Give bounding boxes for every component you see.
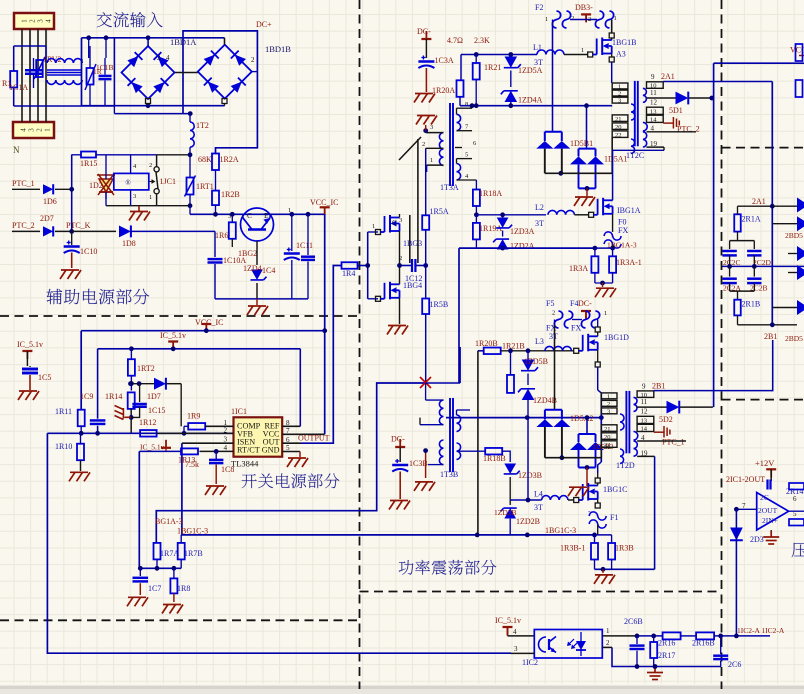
svg-text:C: C [247, 211, 252, 220]
wire bridge1BD1B right corner down to 1R2A [252, 71, 258, 73]
svg-text:2R16B: 2R16B [692, 639, 715, 648]
twin diode 1D5B1 [545, 131, 562, 133]
resistor 1R20A [460, 55, 462, 81]
MOSFET 1BG1D [574, 348, 579, 353]
resistor 1R3A-1 [612, 248, 614, 256]
svg-text:3: 3 [28, 128, 36, 132]
T2D winding arcs left [620, 414, 624, 430]
svg-text:12: 12 [650, 99, 658, 107]
svg-text:1ZD4: 1ZD4 [243, 264, 262, 273]
capacitor 1C8 [214, 449, 219, 454]
svg-text:5D1: 5D1 [669, 106, 683, 115]
svg-text:1R9: 1R9 [187, 412, 200, 421]
svg-text:2OUT: 2OUT [758, 506, 778, 515]
section divider dashed horizontal y=591 (power osc bottom) [360, 591, 722, 593]
svg-text:5: 5 [465, 152, 468, 159]
svg-text:3: 3 [514, 645, 518, 653]
capacitor 2C6B [636, 636, 638, 644]
svg-text:2: 2 [422, 141, 425, 148]
svg-text:1C1A: 1C1A [9, 83, 28, 92]
vertical zener-chain x=528 to gate net [527, 418, 529, 500]
resistor 1R8 [173, 568, 175, 578]
svg-text:2IC1-2OUT: 2IC1-2OUT [726, 475, 765, 484]
bottom bus of aux regulator [215, 298, 308, 300]
MOSFET 1BG3 [376, 230, 381, 235]
varistor 1RV2 [36, 60, 43, 77]
svg-text:2C6: 2C6 [728, 660, 741, 669]
transformer 1T3B core [449, 398, 451, 472]
right edge diode stub wires [772, 223, 797, 225]
svg-text:9: 9 [642, 382, 646, 390]
svg-text:1: 1 [606, 627, 610, 635]
svg-text:1R6: 1R6 [215, 231, 228, 240]
bus A stub to 1BD1B top corner [224, 38, 226, 45]
section divider dashed horizontal right y=399.6 [722, 399, 804, 401]
pin1 COMP stub [205, 425, 233, 427]
wire VCC net y=330.7 [81, 330, 325, 332]
svg-text:14: 14 [650, 116, 657, 123]
ground 1R3B [602, 569, 604, 573]
pin7 VCC stub [282, 433, 325, 435]
gate wire L1 to 1BG1B [564, 54, 588, 56]
svg-text:4.7Ω: 4.7Ω [447, 36, 463, 45]
svg-text:PTC_2: PTC_2 [12, 221, 35, 230]
resistor 2R16 [663, 632, 681, 639]
svg-text:1BD1B: 1BD1B [265, 44, 291, 54]
opto pin1 wire right [602, 635, 637, 637]
svg-text:3: 3 [37, 19, 45, 23]
svg-text:1: 1 [545, 16, 548, 23]
svg-text:8: 8 [465, 101, 468, 108]
svg-text:1R21: 1R21 [484, 63, 501, 72]
svg-text:1D6: 1D6 [43, 197, 57, 206]
svg-text:1R3A: 1R3A [569, 264, 588, 273]
svg-text:1: 1 [618, 83, 621, 90]
svg-text:2: 2 [588, 16, 591, 23]
1T2C core [634, 81, 636, 146]
wire BG1A-3 net to T3B left pin [426, 382, 461, 384]
T2D right winding box 10 [637, 391, 654, 398]
svg-text:1ZD5A: 1ZD5A [518, 66, 543, 75]
svg-text:1R10: 1R10 [55, 442, 72, 451]
IC pin stubs left (black) [216, 423, 234, 425]
wire 1D8 to transistor base column [214, 231, 216, 257]
1T3B left pins [426, 399, 444, 401]
svg-text:1BG1C-3: 1BG1C-3 [545, 526, 576, 535]
svg-text:PTC_1: PTC_1 [662, 438, 685, 447]
ground under 1C10 [60, 270, 81, 279]
svg-text:1BG2: 1BG2 [238, 249, 257, 258]
svg-text:68K: 68K [198, 155, 212, 164]
resistor 1R14 [128, 392, 135, 409]
wire L2 to gate 1BG1A [575, 214, 589, 216]
svg-text:1: 1 [581, 47, 584, 54]
capacitor 2C2A [729, 266, 731, 276]
resistor 1R6 [229, 222, 236, 239]
svg-text:1R14: 1R14 [105, 392, 122, 401]
1T3B left winding lower [439, 440, 443, 465]
ground 1BG4 source [387, 326, 408, 335]
svg-text:1R5A: 1R5A [430, 207, 449, 216]
twin diode 1D5A1 [586, 106, 588, 149]
svg-text:3: 3 [133, 193, 136, 200]
diode 1D2 (yellow) [99, 179, 113, 192]
resistor 1R2A with 68K [212, 154, 219, 171]
relay contact wires [156, 155, 158, 167]
MOSFET 1BG1A [589, 212, 594, 217]
svg-text:1: 1 [149, 194, 152, 201]
svg-text:2: 2 [607, 401, 610, 408]
capacitor 1C3A polarized [418, 60, 434, 62]
svg-text:2A1: 2A1 [752, 197, 766, 206]
wire left box bottom [14, 105, 114, 107]
ground rotated left of 1R14 [115, 406, 132, 420]
svg-text:2D3: 2D3 [750, 535, 764, 544]
svg-text:1R2B: 1R2B [221, 190, 240, 199]
left big wire down-left to bottom rail [47, 433, 511, 653]
T2D left boxes 1/2/3 [601, 393, 617, 399]
common-mode choke 1L1 [47, 59, 82, 63]
svg-text:3T: 3T [535, 219, 544, 228]
svg-text:3: 3 [399, 217, 402, 224]
resistor 1R21 [475, 55, 477, 64]
svg-text:IC_5.1v: IC_5.1v [17, 340, 43, 349]
svg-text:IBG1A: IBG1A [617, 206, 641, 215]
1BG1B source to T2C pin1 [611, 54, 613, 58]
T2D right boxes 13 14 [637, 416, 654, 423]
opto pin3 [511, 652, 534, 654]
ground 1C7 [127, 597, 148, 606]
svg-text:1C15: 1C15 [148, 406, 165, 415]
wire lower rail y=105.7 [460, 105, 612, 107]
svg-text:1: 1 [44, 128, 52, 132]
resistor 1R13 [181, 448, 198, 454]
wire pin10 to right corner [654, 340, 773, 391]
svg-text:2: 2 [552, 310, 555, 317]
zener 1ZD2A [497, 239, 509, 249]
svg-text:1R18A: 1R18A [479, 189, 502, 198]
svg-text:VCC_IC: VCC_IC [195, 318, 223, 327]
bottom window edge strip [0, 686, 804, 690]
1T3B right winding [457, 415, 461, 431]
svg-text:1D2: 1D2 [89, 181, 103, 190]
svg-text:PTC_K: PTC_K [66, 221, 91, 230]
1BG4 stubs [399, 266, 401, 285]
svg-text:1R2A: 1R2A [220, 155, 239, 164]
svg-text:1BG3: 1BG3 [403, 239, 422, 248]
svg-text:4: 4 [513, 628, 517, 636]
svg-text:1R8: 1R8 [177, 584, 190, 593]
svg-text:1T2C: 1T2C [626, 151, 644, 160]
resistor 1R2B [212, 191, 219, 206]
svg-text:1ZD2B: 1ZD2B [516, 517, 540, 526]
svg-text:1C8: 1C8 [221, 465, 234, 474]
opto transistor left [539, 637, 547, 652]
vertical to 1C9 [97, 349, 99, 419]
svg-text:1R7B: 1R7B [184, 549, 203, 558]
T2D right arcs [634, 397, 638, 411]
svg-text:2D7: 2D7 [40, 214, 54, 223]
T2D left boxes 21/20/22 [601, 425, 617, 432]
section divider dashed vertical x=359 [359, 0, 361, 689]
output diode 5D2 row lower [637, 406, 667, 408]
capacitor 1C10A [208, 258, 223, 260]
node row y=265.5 [400, 265, 413, 267]
svg-text:1D5B2: 1D5B2 [592, 442, 614, 451]
opto pin2 wire right [602, 646, 612, 648]
wire top rail y=54.5 [461, 54, 537, 56]
svg-text:RT/CT: RT/CT [237, 446, 260, 455]
zener 1ZD5A [510, 55, 512, 59]
zener 1ZD4B [527, 374, 529, 386]
wire IC_5.1v net to lower-left [139, 450, 181, 452]
svg-text:GND: GND [262, 446, 280, 455]
resistor 1R20B [484, 348, 501, 355]
svg-text:13: 13 [641, 417, 648, 424]
svg-text:1R18B: 1R18B [483, 454, 506, 463]
transformer 1T3A core [449, 103, 451, 186]
sense node wire y=248.1 [459, 247, 595, 249]
section title 压 (cut at right edge) [792, 542, 804, 557]
AC link between bridges [175, 72, 198, 74]
svg-text:1D8: 1D8 [122, 239, 136, 248]
inductor 1T2 vertical [190, 122, 194, 147]
transformer 1T2C left winding boxes 1/2/3 [612, 83, 628, 89]
wire top bus A y=37.8 [82, 37, 225, 39]
pin8 REF stub [282, 425, 300, 427]
VCC_IC vertical rail to switching section [324, 214, 326, 434]
1D5B2 bottom bracket and ground [579, 466, 596, 468]
connector JP2 bottom (pins 4-1) [13, 122, 54, 138]
left drop from F2 to diode pack [552, 25, 554, 131]
cap bank top bracket [730, 240, 755, 242]
op-amp 2IC1 triangle [757, 493, 789, 531]
svg-text:2C: 2C [760, 493, 769, 502]
1BG1C drain from T2D [597, 473, 599, 478]
junction under 1D5A2 pack [560, 455, 565, 460]
T2D primary return vertical [600, 447, 602, 457]
svg-text:TL3844: TL3844 [231, 459, 259, 469]
resistor 1R3B [611, 535, 613, 543]
svg-text:1R3B: 1R3B [615, 544, 634, 553]
capacitor 1C11 polarized [291, 214, 293, 251]
svg-text:PTC_1: PTC_1 [12, 179, 35, 188]
svg-text:F2: F2 [535, 3, 543, 12]
diode 1D7 [131, 383, 154, 385]
vertical from opamp node down to bottom net [735, 509, 737, 636]
capacitor 1C7 [139, 568, 141, 576]
svg-text:1: 1 [372, 223, 375, 230]
svg-text:11: 11 [650, 89, 657, 97]
svg-text:4: 4 [45, 19, 53, 23]
svg-text:1R12: 1R12 [139, 418, 156, 427]
svg-text:F1: F1 [610, 513, 618, 522]
svg-text:1: 1 [604, 310, 607, 317]
svg-text:1BG1D: 1BG1D [604, 333, 629, 342]
svg-text:1C7: 1C7 [148, 584, 161, 593]
junction under 1D5B1 pack [558, 171, 563, 176]
svg-text:DB3-: DB3- [575, 3, 593, 12]
svg-text:1R20B: 1R20B [475, 339, 498, 348]
svg-text:20: 20 [615, 124, 622, 131]
resistor 1R5A [422, 215, 429, 230]
svg-text:2: 2 [571, 15, 574, 22]
svg-text:14: 14 [641, 425, 648, 432]
wire gate row y=350.8 [501, 350, 574, 352]
svg-text:1C5: 1C5 [38, 373, 51, 382]
red X no-connect [420, 377, 431, 388]
1BG1C source and fuse F1 [597, 499, 599, 503]
IC 1IC1 TL3844 box [234, 417, 283, 456]
svg-text:2B1: 2B1 [652, 381, 665, 390]
1T3A right top winding (8-7) [457, 114, 461, 130]
net BG1A-3 wire y=510.7 [156, 383, 425, 543]
transistor connections [242, 214, 244, 218]
diode 1D6 [12, 188, 40, 190]
svg-text:DC-: DC- [417, 27, 431, 36]
earth ground bottom [647, 667, 663, 680]
capacitor 1C10 polarized [71, 231, 73, 245]
resistor 1R21B body [507, 375, 514, 393]
pin3 ISEN stub and net to current sense [182, 442, 234, 444]
1T3A pin8 riser to top net [471, 106, 473, 109]
svg-text:1R7A: 1R7A [160, 549, 179, 558]
svg-text:1: 1 [607, 393, 610, 400]
junction dot 1T2 top [188, 111, 193, 116]
svg-text:2IN+: 2IN+ [762, 516, 778, 525]
resistor 1R15 [81, 152, 96, 158]
wire input top taps [14, 45, 46, 47]
svg-text:3T: 3T [534, 58, 543, 67]
1T3A right bottom winding (5-4) [457, 164, 461, 180]
thermistor 1RT3 [87, 68, 94, 85]
svg-text:20: 20 [604, 434, 611, 441]
svg-text:1R3A-1: 1R3A-1 [616, 258, 642, 267]
gate bus 1BG3/1BG4 [358, 265, 368, 267]
svg-text:3T: 3T [549, 332, 558, 341]
pin5 GND stub [282, 451, 300, 453]
svg-text:BG1A-3: BG1A-3 [155, 517, 183, 526]
1BG1A drain stub up [612, 150, 614, 200]
svg-text:F5: F5 [546, 299, 554, 308]
2R1B bottom wire to bus [737, 315, 739, 324]
ground 1C5 [18, 391, 39, 400]
zener 1ZD4 [251, 270, 263, 280]
svg-text:2: 2 [29, 19, 37, 23]
ground 1R8 [162, 605, 183, 614]
svg-text:9: 9 [651, 73, 655, 81]
relay contacts [154, 167, 159, 172]
svg-text:2.3K: 2.3K [474, 36, 490, 45]
svg-text:2: 2 [157, 54, 161, 62]
op-amp ground [770, 530, 772, 535]
wire bridges bottom y=113.6 [114, 113, 190, 115]
svg-text:2: 2 [251, 56, 255, 64]
svg-text:1IC2-A 1IC2-A: 1IC2-A 1IC2-A [737, 626, 785, 635]
1T3A pin1 lead [427, 164, 444, 166]
thermistor 1RT1 [187, 178, 194, 195]
wire bus B y=30.9 DC+ rail [183, 31, 257, 114]
relay pins [130, 155, 132, 174]
vertical from node to T3B area [458, 248, 460, 383]
1T2C left winding boxes 21/20/22 [612, 115, 628, 122]
relay 1JC1 coil [114, 173, 149, 190]
1T3A pin3 lead and ground [426, 132, 444, 134]
svg-text:IC_5.1v: IC_5.1v [160, 331, 186, 340]
svg-text:22: 22 [604, 444, 611, 451]
svg-text:21: 21 [615, 116, 622, 123]
svg-text:1D7: 1D7 [147, 392, 161, 401]
svg-text:1IC1: 1IC1 [231, 407, 247, 416]
svg-text:1JC1: 1JC1 [160, 177, 176, 186]
svg-text:1C3B: 1C3B [409, 459, 428, 468]
section divider dashed horizontal right top y=147.6 [722, 147, 804, 149]
capacitor 2C6 [720, 636, 722, 654]
bridge rectifier 1BD1A [122, 46, 175, 99]
svg-text:2: 2 [606, 639, 610, 647]
capacitor 1C1B [99, 75, 112, 77]
fuse F4 [581, 311, 589, 328]
opto LED right [576, 641, 586, 650]
wire F4 right to 1BG1D drain [597, 319, 599, 321]
svg-text:2BD5: 2BD5 [785, 334, 803, 343]
section title 辅助电源部分 auxiliary power section [47, 289, 150, 305]
black diagonal lead [399, 137, 421, 160]
svg-text:1T3B: 1T3B [440, 470, 458, 479]
svg-text:2R1B: 2R1B [742, 300, 761, 309]
svg-text:-: - [588, 507, 591, 516]
resistor 1R7B [178, 543, 185, 560]
svg-text:2R1A: 2R1A [742, 215, 761, 224]
fuse F3 [595, 11, 603, 28]
svg-text:1R4: 1R4 [342, 269, 355, 278]
svg-text:3: 3 [618, 98, 621, 105]
svg-text:2C6B: 2C6B [624, 617, 643, 626]
svg-text:DC+: DC+ [256, 20, 272, 29]
svg-text:E: E [264, 211, 269, 220]
svg-text:11: 11 [641, 398, 648, 406]
section title 交流输入 AC input [97, 12, 163, 27]
capacitor 2C2B [753, 266, 755, 276]
resistor 1R4 [342, 262, 358, 269]
wire 1R15 net [72, 154, 81, 156]
ground T3B pin [425, 452, 427, 478]
ground 1R10 [69, 472, 90, 481]
ground IC [287, 458, 308, 467]
wire main row y=417.6 [446, 417, 601, 419]
svg-text:1D5A2: 1D5A2 [570, 414, 594, 423]
svg-text:3T: 3T [534, 503, 543, 512]
connector JP1 top (pins 1-4) [14, 13, 54, 29]
svg-text:FX: FX [618, 226, 628, 235]
bridge rectifier 1BD1B [198, 45, 252, 99]
MOSFET 1BG4 [376, 296, 381, 301]
resistor 2R1B [737, 291, 739, 300]
svg-text:2: 2 [149, 162, 152, 169]
capacitor 1C1A [25, 69, 42, 71]
pin2 VFB stub [157, 432, 234, 434]
MOSFET 1BG1B [611, 20, 613, 34]
optocoupler 1IC2 box [534, 630, 602, 659]
svg-text:IC_5.1v: IC_5.1v [495, 616, 521, 625]
zener 1ZD2B [509, 477, 511, 505]
diode 2D7 [12, 230, 40, 232]
zener 1ZD4A [505, 91, 518, 102]
svg-text:1RT1: 1RT1 [196, 182, 214, 191]
right edge resistors top (cut) [796, 44, 803, 61]
svg-text:G: G [392, 219, 397, 227]
svg-text:1R20A: 1R20A [432, 86, 455, 95]
